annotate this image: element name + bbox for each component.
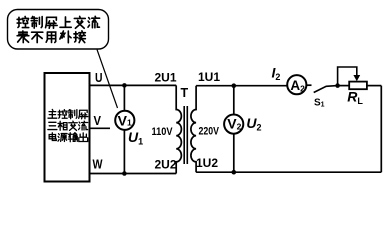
callout text line 1: 控制屏上交流 (17, 16, 99, 28)
label 2U2 (155, 158, 177, 172)
label 110V (152, 126, 174, 138)
wire: V2 lower branch (233, 134, 235, 173)
label RL (347, 89, 363, 106)
terminal label U (95, 70, 103, 85)
voltmeter V2 (224, 115, 243, 134)
svg-text:1U1: 1U1 (198, 70, 220, 84)
wire: V terminal stub (90, 127, 111, 129)
terminal label W (93, 157, 104, 172)
node: junction on U wire above V1 (122, 83, 127, 88)
wire: V1 upper branch (123, 85, 125, 110)
voltmeter V1 (115, 111, 134, 130)
wire: secondary top to ammeter (196, 85, 288, 87)
svg-text:220V: 220V (199, 126, 220, 138)
source box text line 1: 主控制屏 (48, 110, 88, 119)
source box text line 2: 三相交流 (48, 121, 88, 130)
node: junction above V2 (232, 83, 237, 88)
svg-text:U: U (95, 70, 103, 85)
node: junction on bottom wire below V2 (232, 170, 237, 175)
wire: V1 lower branch (123, 130, 125, 174)
wire: ammeter to switch (306, 84, 311, 86)
label 220V (199, 126, 220, 138)
svg-text:110V: 110V (152, 126, 174, 138)
svg-text:T: T (181, 86, 189, 100)
svg-text:2U2: 2U2 (155, 158, 177, 172)
svg-text:1U2: 1U2 (196, 156, 218, 170)
callout leader line to voltmeter V1 (97, 50, 118, 109)
label 2U1 (155, 71, 177, 85)
terminal label V (94, 113, 102, 128)
svg-text:V: V (94, 113, 102, 128)
wire: U terminal to transformer primary top (90, 84, 177, 86)
annotation callout bubble (8, 10, 109, 50)
rheostat RL body (349, 82, 367, 90)
transformer T primary winding (176, 85, 181, 173)
label T (181, 86, 189, 100)
wire: V2 upper branch (233, 86, 235, 115)
wire: rheostat to right edge (367, 85, 381, 87)
source box: three-phase AC supply (45, 73, 90, 182)
wire: secondary bottom return (196, 171, 381, 173)
source box text line 3: 电源输出 (49, 133, 88, 142)
label 1U2 (196, 156, 218, 170)
wire: junction to rheostat (338, 85, 350, 87)
label 1U1 (198, 70, 220, 84)
label I2 (272, 65, 281, 82)
svg-text:2U1: 2U1 (155, 71, 177, 85)
callout text line 2: 表不用外接 (17, 31, 85, 43)
rheostat RL wiper arrow (338, 67, 361, 86)
transformer T secondary winding (191, 86, 196, 173)
label U2 (246, 115, 261, 132)
label S1 (314, 98, 325, 109)
ammeter A2 (287, 75, 306, 94)
label U1 (128, 129, 143, 146)
wire: right side down (380, 86, 382, 173)
wire: W terminal to transformer primary bottom (90, 173, 177, 175)
node: junction on W wire below V1 (122, 171, 127, 176)
svg-text:W: W (93, 157, 104, 172)
transformer T core (184, 106, 187, 164)
switch S1 blade (314, 86, 338, 93)
node: switch/rheostat junction (335, 83, 340, 88)
